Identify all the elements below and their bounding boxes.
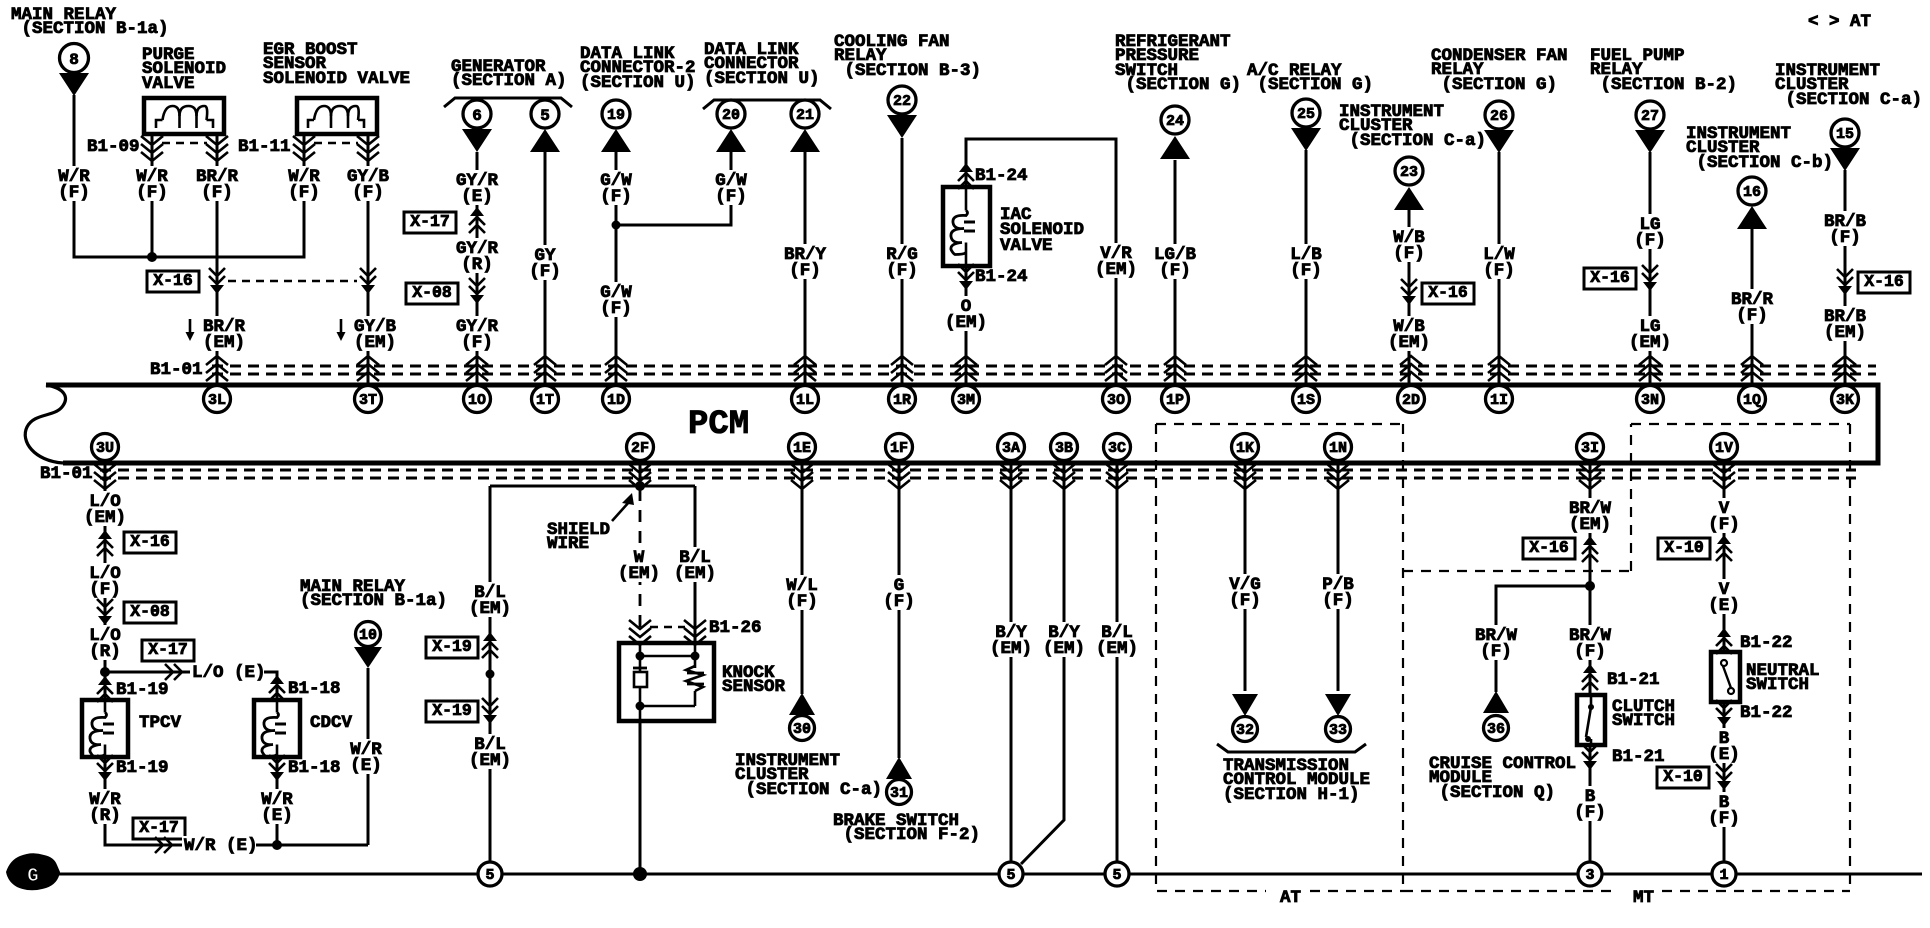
wire 3C B/L: [1116, 463, 1119, 862]
PCM pin 1O: [464, 386, 491, 413]
svg-text:B1-09: B1-09: [87, 137, 140, 157]
wire generator GY: [544, 152, 547, 385]
svg-text:B1-24: B1-24: [975, 166, 1028, 186]
connector B1-09 symbol: [141, 136, 228, 161]
svg-text:X-16: X-16: [1529, 538, 1569, 557]
connector B1-01 chevrons at pin 3C: [1106, 464, 1128, 489]
svg-text:(F): (F): [1322, 591, 1354, 611]
connector B1-22 bottom label: [1740, 703, 1793, 723]
wire EGR GY/B: [367, 134, 370, 385]
svg-text:B1-24: B1-24: [975, 267, 1028, 287]
connector B1-09 label: [87, 137, 140, 157]
svg-text:B1-18: B1-18: [288, 679, 341, 699]
junction dot B/L: [486, 670, 495, 679]
svg-text:31: 31: [890, 785, 908, 802]
PCM pin 1I: [1486, 386, 1513, 413]
connector B1-11 label: [238, 137, 291, 157]
svg-text:(SECTION A): (SECTION A): [451, 71, 567, 91]
connector circle 6: [463, 100, 491, 128]
main relay title: [11, 5, 169, 39]
PCM pin 3B: [1051, 434, 1078, 461]
wire label BR/R (EM): [186, 316, 249, 353]
svg-text:VALVE: VALVE: [1000, 236, 1053, 256]
connector B1-01 chevrons at pin 1I: [1488, 356, 1510, 381]
PCM pin 1E: [789, 434, 816, 461]
connector B1-01 bottom label: [40, 464, 93, 484]
connector B1-01 chevrons at pin 1E: [791, 464, 813, 489]
svg-text:(SECTION H-1): (SECTION H-1): [1223, 785, 1360, 805]
connector circle 21: [791, 100, 819, 128]
svg-text:(F): (F): [1574, 803, 1606, 823]
connector B1-01 chevrons at pin 1O: [466, 356, 488, 381]
svg-text:(EM): (EM): [1569, 515, 1611, 535]
AT note top right: [1808, 12, 1871, 32]
svg-text:(F): (F): [352, 183, 384, 203]
wire label G/W (F) upper: [597, 170, 635, 207]
svg-text:5: 5: [485, 867, 494, 884]
svg-text:(EM): (EM): [469, 599, 511, 619]
junction dot G/W: [612, 221, 621, 230]
main relay B-1a title: [300, 577, 447, 611]
connector B1-26 symbol: [629, 620, 706, 645]
arrow at connector 32: [1232, 694, 1258, 716]
svg-text:5: 5: [540, 107, 550, 125]
connector B1-01 chevrons at pin 3L: [206, 356, 228, 381]
svg-text:3B: 3B: [1055, 440, 1073, 457]
svg-text:(SECTION C-a): (SECTION C-a): [735, 780, 882, 800]
svg-text:X-16: X-16: [1590, 268, 1630, 287]
svg-text:(SECTION B-2): (SECTION B-2): [1590, 75, 1737, 95]
svg-text:1N: 1N: [1329, 440, 1347, 457]
arrow at connector 6: [462, 129, 492, 152]
connector circle 33: [1326, 717, 1351, 742]
connector X-16 box 3I: [1523, 538, 1575, 559]
svg-text:1T: 1T: [536, 392, 554, 409]
PCM pin 1F: [886, 434, 913, 461]
svg-text:1L: 1L: [796, 392, 814, 409]
arrow at connector 23: [1394, 187, 1424, 210]
connector B1-01 chevrons at pin 1S: [1295, 356, 1317, 381]
wire 3I BR/W: [1589, 463, 1592, 695]
wire W/R from main relay 8: [74, 95, 304, 257]
connector X-10 box bottom: [1657, 767, 1709, 788]
generator title: [451, 57, 567, 91]
connector B1-22 bottom symbol: [1716, 700, 1732, 726]
wire label L/O (R): [86, 625, 124, 662]
svg-text:(E): (E): [261, 806, 293, 826]
svg-text:WIRE: WIRE: [547, 534, 589, 554]
wire label W (EM): [615, 547, 663, 584]
wire label BR/W (F) cruise: [1472, 625, 1520, 662]
PCM pin 3N: [1637, 386, 1664, 413]
svg-text:23: 23: [1400, 164, 1418, 181]
svg-text:X-19: X-19: [432, 701, 472, 720]
condenser fan relay title: [1431, 46, 1568, 95]
svg-text:1: 1: [1719, 867, 1728, 884]
connector X-17 symbol generator: [469, 207, 485, 233]
wire cluster BR/B: [1844, 170, 1847, 385]
wire cluster W/B: [1408, 210, 1411, 385]
arrow at connector 8: [59, 73, 89, 96]
svg-text:(F): (F): [600, 299, 632, 319]
knock sensor box: [619, 643, 714, 721]
wire generator GY/R: [476, 152, 479, 385]
svg-text:(EM): (EM): [990, 639, 1032, 659]
wire label B/Y (EM) 3B: [1040, 622, 1088, 659]
wire label L/O (E): [190, 663, 266, 683]
connector X-16 box cluster15: [1858, 272, 1910, 293]
PCM pin 1P: [1162, 386, 1189, 413]
wire 1K V/G: [1244, 463, 1247, 691]
connector X-16 box purge: [147, 271, 199, 292]
connector B1-01 chevrons at pin 3I: [1579, 464, 1601, 489]
connector B1-19 bottom symbol: [97, 755, 113, 781]
connector B1-24 bottom label: [975, 267, 1028, 287]
svg-text:21: 21: [796, 107, 814, 124]
wire label W/R (E) relay: [347, 739, 385, 776]
svg-text:(EM): (EM): [618, 564, 660, 584]
PCM pin 3C: [1104, 434, 1131, 461]
svg-text:16: 16: [1743, 184, 1761, 201]
shield wire arrow: [612, 493, 634, 521]
svg-text:(SECTION B-3): (SECTION B-3): [834, 61, 981, 81]
svg-text:3M: 3M: [957, 392, 975, 409]
wire label R/G (F): [883, 244, 921, 281]
ground rail wire: [59, 873, 1922, 876]
svg-text:MT: MT: [1633, 888, 1654, 908]
PCM pin 3O: [1103, 386, 1130, 413]
arrow at connector 24: [1160, 136, 1190, 159]
wire 1N P/B: [1337, 463, 1340, 691]
PCM pin 1N: [1325, 434, 1352, 461]
svg-text:(F): (F): [715, 187, 747, 207]
PCM pin 3T: [355, 386, 382, 413]
connector B1-01 bottom dashed line: [100, 470, 1856, 478]
svg-text:(F): (F): [1159, 261, 1191, 281]
svg-text:(R): (R): [89, 642, 121, 662]
CDCV label: [310, 713, 353, 733]
wire 1E W/L: [801, 463, 804, 694]
wire neutral B: [1723, 702, 1726, 862]
svg-text:3I: 3I: [1581, 440, 1599, 457]
svg-text:25: 25: [1297, 106, 1315, 123]
arrow at connector 20: [716, 129, 746, 152]
knock sensor label: [722, 663, 786, 697]
svg-text:X-08: X-08: [412, 283, 452, 302]
connector B1-01 chevrons at pin 1P: [1164, 356, 1186, 381]
PCM pin 1L: [792, 386, 819, 413]
wire branch BR/W to cruise: [1496, 586, 1590, 692]
svg-text:X-17: X-17: [410, 212, 450, 231]
connector B1-01 chevrons at pin 3O: [1105, 356, 1127, 381]
connector X-16 box cluster23: [1422, 283, 1474, 304]
svg-text:30: 30: [793, 721, 811, 738]
svg-text:(F): (F): [1708, 515, 1740, 535]
wire label L/W (F): [1480, 244, 1518, 281]
wire A/C L/B: [1305, 150, 1308, 385]
connector X-16 symbol fuel pump: [1642, 265, 1658, 291]
wire CDCV W/R: [276, 757, 279, 845]
wire label BR/W (F) clutch: [1566, 625, 1614, 662]
svg-text:(SECTION B-1a): (SECTION B-1a): [11, 19, 169, 39]
svg-text:B1-19: B1-19: [116, 758, 169, 778]
junction dot L/O branch: [100, 667, 110, 677]
fuel pump relay title: [1590, 46, 1737, 95]
EGR solenoid valve box: [297, 98, 377, 134]
connector circle 26: [1485, 101, 1513, 129]
connector B1-01 chevrons at pin 2D: [1400, 356, 1422, 381]
transmission underbrace: [1217, 744, 1366, 752]
wire label W/R (F) purge: [133, 166, 171, 203]
AT label: [1280, 888, 1301, 908]
svg-text:X-16: X-16: [1864, 272, 1904, 291]
transmission control module title: [1223, 756, 1370, 805]
data link connector brace: [703, 100, 831, 109]
wire purge BR/R: [216, 134, 219, 385]
svg-text:(R): (R): [461, 255, 493, 275]
connector X-08 symbol 3U: [97, 599, 113, 625]
wire 1V V: [1723, 463, 1726, 652]
wire label W/R (E) inline: [182, 836, 258, 856]
svg-text:(SECTION C-a): (SECTION C-a): [1339, 131, 1486, 151]
arrow at connector 10: [354, 647, 382, 668]
svg-text:(EM): (EM): [945, 313, 987, 333]
wire G/W branch to DLC: [616, 152, 731, 225]
connector X-10 symbol top: [1716, 535, 1732, 561]
svg-text:10: 10: [359, 627, 377, 644]
svg-text:(F): (F): [201, 183, 233, 203]
connector B1-22 top label: [1740, 633, 1793, 653]
connector B1-01 chevrons at pin 1Q: [1741, 356, 1763, 381]
arrow at connector 16: [1737, 206, 1767, 229]
wire label L/O (EM) 3U: [81, 491, 129, 528]
wire label LG/B (F): [1151, 244, 1199, 281]
svg-text:(F): (F): [1829, 228, 1861, 248]
PCM pin 2D: [1398, 386, 1425, 413]
connector X-17 symbol branch: [165, 664, 182, 680]
refrigerant pressure switch title: [1115, 32, 1241, 95]
svg-text:< > AT: < > AT: [1808, 12, 1871, 32]
TPCV label: [139, 713, 182, 733]
svg-text:1O: 1O: [468, 392, 486, 409]
svg-text:(F): (F): [1393, 244, 1425, 264]
svg-text:1F: 1F: [890, 440, 908, 457]
clutch switch label: [1612, 697, 1675, 731]
wire label W/B (F): [1390, 227, 1428, 264]
connector circle 16: [1738, 177, 1766, 205]
connector X-08 box generator: [406, 283, 458, 304]
connector B1-18 top label: [288, 679, 341, 699]
svg-text:X-10: X-10: [1663, 767, 1703, 786]
svg-text:X-08: X-08: [130, 602, 170, 621]
svg-text:(F): (F): [58, 183, 90, 203]
svg-text:2F: 2F: [631, 440, 649, 457]
wire label BR/W (EM): [1566, 498, 1614, 535]
connector X-10 box top: [1658, 538, 1710, 559]
PCM label: [688, 406, 749, 444]
cruise control module title: [1429, 754, 1576, 803]
svg-text:(F): (F): [461, 333, 493, 353]
svg-text:(E): (E): [1708, 596, 1740, 616]
wire DLC2 G/W: [615, 152, 618, 385]
wire label B/L (EM) 3C: [1093, 622, 1141, 659]
PCM pin 1R: [889, 386, 916, 413]
connector B1-21 bottom symbol: [1582, 744, 1598, 770]
svg-text:B1-19: B1-19: [116, 680, 169, 700]
wire knock sensor to ground: [639, 721, 642, 874]
arrow at connector 25: [1291, 128, 1321, 151]
svg-text:B1-01: B1-01: [150, 360, 203, 380]
connector B1-01 chevrons at pin 1L: [794, 356, 816, 381]
svg-text:(F): (F): [1480, 642, 1512, 662]
svg-text:(F): (F): [1634, 231, 1666, 251]
svg-text:8: 8: [69, 51, 79, 69]
svg-text:(SECTION C-b): (SECTION C-b): [1686, 153, 1833, 173]
svg-text:X-16: X-16: [153, 271, 193, 290]
svg-text:(F): (F): [883, 592, 915, 612]
connector circle 25: [1292, 99, 1320, 127]
svg-text:(EM): (EM): [84, 508, 126, 528]
svg-text:B1-21: B1-21: [1612, 747, 1665, 767]
svg-text:27: 27: [1641, 108, 1659, 125]
connector X-08 symbol generator: [469, 278, 485, 304]
shield wire label: [547, 520, 610, 554]
PCM pin 3I: [1577, 434, 1604, 461]
svg-text:33: 33: [1329, 722, 1347, 739]
data link connector-2 title: [580, 44, 696, 93]
svg-text:(SECTION G): (SECTION G): [1115, 75, 1241, 95]
svg-text:SOLENOID VALVE: SOLENOID VALVE: [263, 69, 410, 89]
svg-text:(SECTION F-2): (SECTION F-2): [833, 825, 980, 845]
connector B1-22 top symbol: [1716, 628, 1732, 654]
connector B1-01 chevrons at pin 3A: [1000, 464, 1022, 489]
svg-text:1E: 1E: [793, 440, 811, 457]
svg-text:3U: 3U: [96, 440, 114, 457]
wire B/L (EM) left branch: [489, 486, 492, 862]
connector X-17 box generator: [404, 212, 456, 233]
wire IAC top loop: [966, 139, 1116, 385]
svg-text:L/O (E): L/O (E): [192, 663, 266, 683]
ground connector 5 right: [1105, 862, 1129, 886]
connector B1-19 bottom label: [116, 758, 169, 778]
junction dot knock ground: [633, 867, 647, 881]
wire knock right B/L: [694, 486, 697, 643]
svg-text:(F): (F): [136, 183, 168, 203]
svg-text:1R: 1R: [893, 392, 911, 409]
svg-text:(F): (F): [529, 262, 561, 282]
svg-text:(EM): (EM): [1095, 260, 1137, 280]
connector B1-01 chevrons at pin 2F: [629, 464, 651, 489]
svg-text:(EM): (EM): [1824, 323, 1866, 343]
neutral switch label: [1746, 661, 1820, 695]
wire label B (F) clutch: [1571, 786, 1609, 823]
connector circle 27: [1636, 101, 1664, 129]
connector circle 24: [1161, 106, 1189, 134]
svg-text:(F): (F): [786, 592, 818, 612]
wire label W/R (R): [86, 789, 124, 826]
wire label O (EM): [942, 296, 990, 333]
wire label B/L (EM) upper: [466, 582, 514, 619]
wire label LG (F): [1631, 214, 1669, 251]
ground connector 5 left: [999, 862, 1023, 886]
arrow at connector 22: [887, 115, 917, 138]
connector B1-01 chevrons at pin 1F: [888, 464, 910, 489]
connector circle 32: [1233, 717, 1258, 742]
svg-text:B1-22: B1-22: [1740, 633, 1793, 653]
connector circle 5 generator: [531, 100, 559, 128]
svg-text:(EM): (EM): [1629, 333, 1671, 353]
svg-text:5: 5: [1006, 867, 1015, 884]
wire label G/W (F) lower: [597, 282, 635, 319]
connector X-19 symbol lower: [482, 698, 498, 724]
wire label W/R (E) CDCV: [258, 789, 296, 826]
connector B1-01 chevrons at pin 3T: [357, 356, 379, 381]
PCM pin 1K: [1232, 434, 1259, 461]
connector B1-24 top label: [975, 166, 1028, 186]
svg-text:(F): (F): [886, 261, 918, 281]
connector circle 10: [356, 622, 381, 647]
connector X-16 box fuel pump: [1584, 268, 1636, 289]
connector B1-19 top symbol: [97, 676, 113, 702]
junction dot purge W/R: [147, 252, 157, 262]
connector circle 30: [790, 716, 815, 741]
svg-text:6: 6: [472, 107, 482, 125]
CDCV box: [254, 700, 300, 757]
instrument cluster C-a title (23): [1339, 102, 1486, 151]
svg-text:(F): (F): [89, 580, 121, 600]
PCM pin 3K: [1832, 386, 1859, 413]
wire label B (E): [1705, 728, 1743, 765]
EGR boost sensor solenoid valve title: [263, 40, 410, 89]
connector X-19 symbol upper: [482, 632, 498, 658]
junction dot BR/W: [1585, 581, 1595, 591]
ground connector 1: [1712, 862, 1736, 886]
arrow at connector 30: [789, 693, 815, 715]
connector B1-01 chevrons at pin 3B: [1053, 464, 1075, 489]
svg-text:SWITCH: SWITCH: [1612, 711, 1675, 731]
connector B1-21 top symbol: [1582, 664, 1598, 690]
wire purge W/R: [151, 134, 154, 257]
wire branch L/O (E): [105, 672, 277, 700]
wire 1F G: [898, 463, 901, 758]
wire label V/R (EM): [1092, 243, 1140, 280]
arrow at connector 15: [1830, 148, 1860, 171]
wire label BR/Y (F): [781, 244, 829, 281]
svg-text:(R): (R): [89, 806, 121, 826]
PCM pin 1S: [1293, 386, 1320, 413]
connector X-19 box lower: [426, 701, 478, 722]
wire IAC O: [965, 266, 968, 385]
connector B1-01 top dashed line: [212, 366, 1876, 374]
wire label GY/B (EM): [337, 316, 400, 353]
wire 2F branch horizontal: [490, 485, 695, 488]
svg-text:(SECTION U): (SECTION U): [580, 73, 696, 93]
arrow at connector 31: [886, 757, 912, 779]
wire label LG (EM): [1626, 316, 1674, 353]
connector B1-01 chevrons at pin 3M: [955, 356, 977, 381]
svg-text:36: 36: [1487, 721, 1505, 738]
wire condenser L/W: [1498, 152, 1501, 385]
svg-text:AT: AT: [1280, 888, 1301, 908]
connector circle 22: [888, 86, 916, 114]
ground connector 3: [1578, 862, 1602, 886]
wire DLC BR/Y: [804, 152, 807, 385]
svg-text:(F): (F): [600, 187, 632, 207]
svg-text:22: 22: [893, 93, 911, 110]
connector circle 8: [60, 44, 89, 73]
svg-text:1V: 1V: [1715, 440, 1733, 457]
svg-text:3T: 3T: [359, 392, 377, 409]
